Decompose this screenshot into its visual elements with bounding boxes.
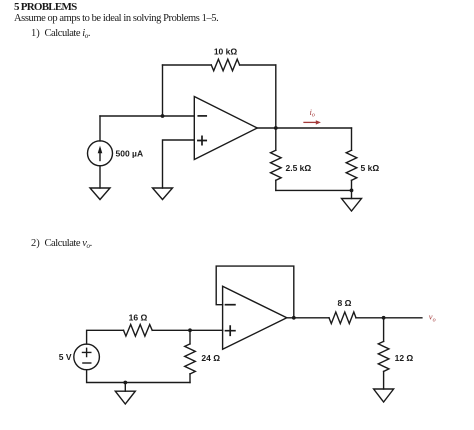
wire: output to v_o [356,317,422,319]
wire: feedback top right segment [240,64,276,66]
wire: current source bottom to ground [99,166,101,188]
wire: stub to ground [351,190,353,198]
resistor 12 Ohm [383,318,385,342]
voltage source V1 5V [74,344,100,370]
svg-text:16 Ω: 16 Ω [129,312,148,322]
node: divider junction [188,328,192,332]
wire: bottom tie between resistors [276,189,352,191]
resistor 5 kOhm [351,128,353,150]
problem 2 label [31,238,40,249]
resistor 24 Ohm [189,330,191,344]
svg-text:5 V: 5 V [59,352,72,362]
node: inverting input junction [161,114,165,118]
wire: horizontal to op-amp inverting input [100,115,194,117]
op-amp U2 plus sign [226,326,235,335]
node: ground junction [350,189,354,193]
wire: feedback right vertical to output [275,65,277,128]
heading: 5 PROBLEMS [14,1,76,13]
op-amp U2 [223,286,287,349]
wire: stub to ground [124,383,126,392]
node: ground junction (bottom rail) [123,381,127,385]
wire: bottom rail [87,370,190,383]
wire: non-inverting input to ground [163,140,195,188]
intro sentence [14,13,218,24]
node: v_o junction [382,316,386,320]
op-amp U1 [194,97,257,160]
resistor 10 kOhm (feedback) [211,59,239,71]
ground (v_o load) [374,389,394,402]
op-amp U1 minus sign [198,115,206,117]
svg-text:12 Ω: 12 Ω [395,353,414,363]
ground (bottom rail) [115,391,135,404]
node: feedback tap [292,316,296,320]
wire: current source top to inverting rail [99,116,101,141]
svg-text:io: io [310,107,315,119]
svg-text:8 Ω: 8 Ω [338,298,352,308]
wire: feedback loop [216,266,294,318]
problem 1 label [31,28,40,39]
svg-text:5 kΩ: 5 kΩ [361,163,380,173]
svg-text:500 µA: 500 µA [116,148,144,158]
svg-text:10 kΩ: 10 kΩ [214,47,238,57]
ground (load) [342,199,362,212]
ground (non-inverting input) [153,188,173,200]
resistor 8 Ohm [329,312,356,324]
svg-text:vo: vo [429,312,436,324]
wire: output rail [287,317,329,319]
wire: feedback top left segment [163,64,212,66]
wire: feedback left vertical [162,65,164,116]
current source I1 500uA [88,141,113,166]
resistor 16 Ohm [124,325,153,337]
wire: rail to non-inverting input [152,329,222,331]
wire: source top to rail [87,330,124,344]
op-amp U2 minus sign [226,304,235,306]
node: output junction [274,126,278,130]
ground (current source) [90,188,110,200]
op-amp U1 plus sign [198,136,206,144]
current arrow i_o (red) [304,120,321,124]
svg-text:2.5 kΩ: 2.5 kΩ [286,163,312,173]
svg-text:24 Ω: 24 Ω [201,353,220,363]
wire: op-amp output rail [257,127,351,129]
resistor 2.5 kOhm [275,128,277,150]
